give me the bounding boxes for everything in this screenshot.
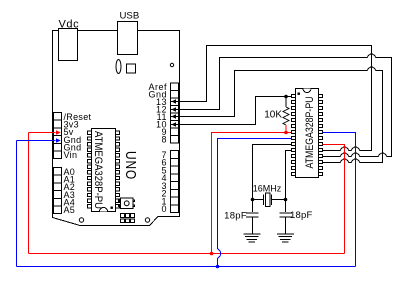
svg-text:8: 8 xyxy=(161,135,167,145)
wire XTAL2 (U2 pin10) xyxy=(286,151,292,200)
junction XTAL2 node xyxy=(284,198,288,202)
svg-text:18pF: 18pF xyxy=(290,210,312,221)
svg-text:ATMEGA328P-PU: ATMEGA328P-PU xyxy=(92,131,104,209)
U1 notch xyxy=(100,208,108,212)
U1 pin-1 dot xyxy=(111,207,113,209)
blue branch U2 GND pin22 xyxy=(323,133,356,267)
ground symbol left xyxy=(243,234,260,242)
arrow into pin 11 xyxy=(171,114,176,118)
svg-text:ATMEGA328P-PU: ATMEGA328P-PU xyxy=(304,96,316,168)
wire D12/MISO xyxy=(171,54,392,157)
wire D13/SCK xyxy=(171,46,372,151)
svg-text:USB: USB xyxy=(120,10,140,21)
svg-text:0: 0 xyxy=(161,204,167,214)
svg-text:Vdc: Vdc xyxy=(59,19,80,31)
mounting hole top-right xyxy=(170,63,173,66)
arrow into pin 12 xyxy=(171,107,176,111)
resistor 10K upper lead xyxy=(285,97,287,108)
svg-text:A5: A5 xyxy=(64,205,76,215)
right pin header (7-0) xyxy=(171,151,179,159)
red branch to U2 VCC pin7 xyxy=(212,133,292,254)
red 5V bottom rail xyxy=(29,253,345,255)
red 5V wire into Arduino 5v pin xyxy=(29,132,56,134)
mounting hole bottom-right xyxy=(145,218,149,222)
U2 notch xyxy=(303,89,311,93)
blue branch to U2 GND pin8 (hops red rail) xyxy=(218,139,292,267)
ICSP header 3x2 xyxy=(121,214,125,218)
junction node reset/10K xyxy=(284,95,288,99)
blue GND bottom rail xyxy=(17,266,356,268)
wire D10/RESET xyxy=(171,97,292,125)
U1 DIP pins xyxy=(88,131,92,134)
capacitor C2 plates xyxy=(279,213,292,217)
red 5V left vertical xyxy=(28,133,30,254)
blue GND left vertical xyxy=(16,141,18,267)
reset button xyxy=(119,200,121,202)
crystal Y1 plates xyxy=(264,195,272,206)
wire XTAL1 (U2 pin9) xyxy=(253,145,292,200)
crystal horizontal wire left xyxy=(253,199,264,201)
C2 to ground lead xyxy=(285,218,287,234)
arrow into pin 10 xyxy=(171,122,176,126)
standalone MCU U2 ATMEGA328P-PU body xyxy=(296,89,319,178)
junction XTAL1 node xyxy=(251,198,255,202)
ground symbol right xyxy=(277,234,294,242)
svg-text:UNO: UNO xyxy=(123,151,140,180)
crystal Y1 body xyxy=(266,193,271,207)
red branch U2 AVCC pin20 xyxy=(323,145,345,254)
U2 pin-1 dot xyxy=(298,93,300,95)
resistor 10K zigzag xyxy=(283,107,289,125)
red junction on bottom rail xyxy=(210,252,214,256)
U2 DIP pins xyxy=(292,94,296,97)
left pin header (A0-A5) xyxy=(54,168,62,176)
blue GND wire into Arduino Gnd pin xyxy=(17,140,56,142)
capacitor C1 18pF lead xyxy=(252,200,254,213)
right pin header (Aref,Gnd,13-8) xyxy=(171,83,179,91)
svg-text:18pF: 18pF xyxy=(224,211,247,222)
USB connector xyxy=(118,22,138,55)
small square component xyxy=(127,64,136,73)
resistor lower lead (red) xyxy=(285,125,287,133)
arrow into pin 13 xyxy=(171,99,176,103)
on-board MCU U1 ATMEGA328P-PU body xyxy=(92,129,116,212)
svg-text:Vin: Vin xyxy=(64,150,78,160)
svg-text:10K: 10K xyxy=(264,110,282,121)
power jack (Vdc) xyxy=(59,29,78,61)
Arduino UNO board outline xyxy=(53,31,180,226)
wire D11/MOSI xyxy=(171,67,383,163)
LED oval xyxy=(116,60,121,74)
capacitor C2 18pF lead xyxy=(285,200,287,213)
left pin header (/Reset,3v3,5v,Gnd,Gnd,Vin) xyxy=(54,113,62,121)
svg-text:16MHz: 16MHz xyxy=(253,184,282,194)
blue junction on bottom rail xyxy=(216,265,220,269)
capacitor C1 plates xyxy=(246,213,258,217)
crystal horizontal wire right xyxy=(272,199,286,201)
red junction at resistor bottom xyxy=(284,131,288,135)
C1 to ground lead xyxy=(252,218,254,234)
mounting hole bottom-left xyxy=(79,218,83,222)
